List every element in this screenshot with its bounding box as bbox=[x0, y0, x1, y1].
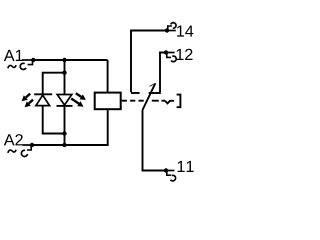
node junction on A1 rail bbox=[62, 58, 66, 62]
LED D1 emission arrows bbox=[22, 94, 33, 108]
wire coil top lead bbox=[107, 60, 109, 93]
wire middle branch lower bbox=[64, 106, 66, 145]
label 14 bbox=[177, 25, 193, 36]
terminal A2 clamp symbol bbox=[21, 143, 34, 157]
wire A1 rail bbox=[33, 59, 107, 61]
wire terminal 14 to NO contact bbox=[131, 31, 167, 93]
label 12 bbox=[177, 49, 193, 60]
label A1 bbox=[4, 50, 23, 61]
mechanical linkage dashes (blade to actuator) bbox=[152, 100, 165, 102]
NC fixed contact foot (12) bbox=[149, 92, 161, 94]
wire A2 rail bbox=[32, 110, 108, 145]
label A2 bbox=[4, 134, 23, 145]
AC tilde at A2 bbox=[8, 150, 16, 153]
wire blade to terminal 11 bbox=[143, 110, 167, 171]
LED D1 (conducts up) bbox=[34, 94, 52, 105]
node junction on A2 rail bbox=[62, 143, 66, 147]
blade tip barb bbox=[150, 83, 156, 86]
NO fixed contact foot (14) bbox=[131, 92, 140, 94]
wire stub to inner rail bbox=[64, 60, 66, 73]
linkage kink bbox=[165, 101, 174, 104]
wire terminal 12 to NC contact bbox=[160, 53, 166, 93]
wire inner top rail bbox=[43, 73, 65, 95]
label 11 bbox=[178, 161, 194, 172]
LED D2 (conducts down) bbox=[57, 95, 73, 106]
LED D2 emission arrows bbox=[71, 93, 86, 107]
terminal A1 clamp symbol bbox=[20, 58, 35, 70]
terminal 14 clamp symbol bbox=[165, 23, 176, 33]
terminal 11 clamp symbol bbox=[164, 168, 176, 181]
wire middle branch upper bbox=[64, 73, 66, 95]
AC tilde at A1 bbox=[8, 65, 16, 68]
node junction inner top rail bbox=[62, 71, 66, 75]
mechanical linkage dashes (coil to blade) bbox=[122, 100, 144, 102]
switch moving blade (common 11) bbox=[143, 83, 156, 110]
relay coil K1 bbox=[95, 93, 121, 110]
node junction inner bottom rail bbox=[62, 131, 66, 135]
wire D1 bottom lead bbox=[43, 106, 65, 134]
actuator bracket bbox=[177, 95, 181, 108]
terminal 12 clamp symbol bbox=[164, 50, 176, 61]
